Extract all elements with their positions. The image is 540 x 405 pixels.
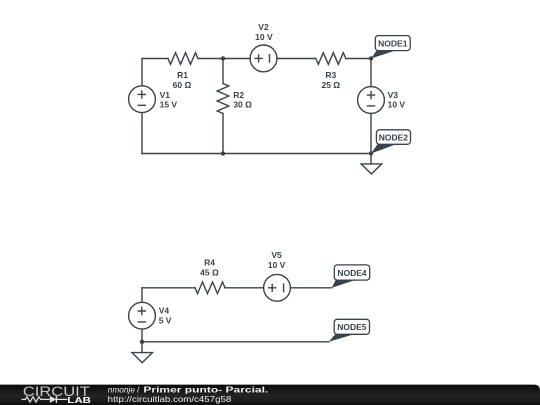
- node junction dot NODE2: [369, 151, 373, 155]
- wire R2 bottom stub: [222, 114, 224, 154]
- node junction dot R2 bottom: [221, 151, 225, 155]
- voltage source V3: [358, 87, 385, 114]
- svg-text:R3: R3: [325, 70, 336, 80]
- wire ground stub (top circuit): [370, 154, 372, 164]
- wire V4 top stub: [141, 288, 143, 302]
- flag NODE4: [332, 265, 370, 288]
- ground (top circuit): [361, 164, 382, 174]
- svg-text:V5: V5: [271, 250, 282, 260]
- voltage source V4: [129, 302, 156, 329]
- wire R4 to V5: [225, 287, 264, 289]
- wire bottom rail (top circuit): [142, 153, 371, 155]
- svg-text:Primer punto- Parcial.: Primer punto- Parcial.: [143, 384, 268, 394]
- svg-text:30 Ω: 30 Ω: [233, 100, 252, 110]
- logo resistor-diode icon: [22, 396, 68, 403]
- svg-text:15 V: 15 V: [160, 100, 178, 110]
- svg-text:10 V: 10 V: [388, 100, 406, 110]
- svg-text:LAB: LAB: [67, 396, 91, 405]
- svg-text:R4: R4: [204, 258, 215, 268]
- resistor R2: [217, 84, 229, 114]
- resistor R4: [195, 282, 225, 294]
- voltage source V1: [129, 86, 156, 113]
- flag NODE1: [371, 36, 410, 59]
- wire V5 to NODE4 flag: [290, 287, 331, 289]
- svg-text:V1: V1: [160, 90, 171, 100]
- wire R3 to node1 corner: [346, 58, 371, 60]
- svg-text:R2: R2: [233, 90, 244, 100]
- wire V4 to R4: [142, 287, 195, 289]
- svg-text:10 V: 10 V: [255, 32, 273, 42]
- svg-text:NODE5: NODE5: [337, 322, 367, 332]
- wire top rail left segment: [142, 58, 168, 60]
- svg-text:NODE1: NODE1: [378, 39, 408, 49]
- voltage source V2: [250, 45, 277, 72]
- logo diode triangle: [50, 396, 57, 403]
- wire R1 to V2: [198, 58, 250, 60]
- svg-text:V4: V4: [159, 306, 170, 316]
- wire V3 bottom to rail: [370, 113, 372, 153]
- wire bottom rail (bottom circuit): [142, 341, 329, 343]
- flag NODE2: [371, 130, 411, 154]
- svg-text:V3: V3: [388, 90, 399, 100]
- voltage source V5: [264, 274, 291, 301]
- resistor R1: [168, 53, 198, 65]
- wire R2 top stub: [222, 59, 224, 84]
- node junction dot (V4 bottom): [140, 340, 144, 344]
- svg-text:5 V: 5 V: [159, 316, 172, 326]
- footer bar: [0, 385, 540, 405]
- svg-text:45 Ω: 45 Ω: [200, 267, 219, 277]
- resistor R3: [316, 53, 346, 65]
- wire ground stub (bottom circuit): [141, 342, 143, 353]
- node junction dot NODE1: [369, 56, 373, 60]
- svg-text:http://circuitlab.com/c457g58: http://circuitlab.com/c457g58: [108, 394, 232, 404]
- svg-text:NODE4: NODE4: [337, 268, 367, 278]
- wire V2 to R3: [277, 58, 316, 60]
- svg-text:25 Ω: 25 Ω: [321, 80, 340, 90]
- wire V1 bottom to rail: [141, 113, 143, 154]
- wire top-left vertical (V1 top to rail): [141, 59, 143, 86]
- svg-text:NODE2: NODE2: [379, 133, 409, 143]
- node junction dot R2 top: [221, 56, 225, 60]
- svg-text:10 V: 10 V: [268, 260, 286, 270]
- svg-text:60 Ω: 60 Ω: [173, 80, 192, 90]
- flag NODE5: [329, 319, 370, 342]
- wire NODE1 to V3 top: [370, 59, 372, 87]
- wire V4 bottom stub: [141, 329, 143, 342]
- ground (bottom circuit): [132, 353, 153, 363]
- svg-text:V2: V2: [258, 22, 269, 32]
- svg-text:nmonje: nmonje: [108, 384, 136, 394]
- svg-text:R1: R1: [177, 70, 188, 80]
